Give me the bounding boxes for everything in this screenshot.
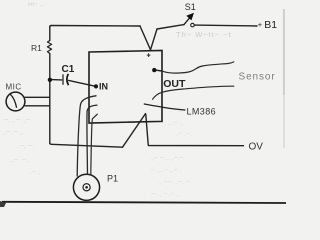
wire C1 input from junction bbox=[51, 79, 63, 81]
svg-text:Sensor: Sensor bbox=[239, 72, 276, 83]
wire 0V rail bbox=[148, 145, 243, 146]
wire diagonal to ground pin bbox=[123, 114, 146, 148]
wire MIC bottom terminal bbox=[25, 105, 50, 107]
svg-text:.,~ ~,.. ,~.~ .: .,~ ~,.. ,~.~ . bbox=[150, 155, 188, 162]
svg-text:., ~~. .~, ~: ., ~~. .~, ~ bbox=[158, 179, 190, 186]
svg-text:~. ,.~ .,~: ~. ,.~ .,~ bbox=[4, 117, 30, 124]
svg-text:~ .,..~ ,.~ ,: ~ .,..~ ,.~ , bbox=[150, 167, 182, 174]
wire left vertical (R1 branch upper) bbox=[49, 27, 51, 41]
svg-text:,.~ .~ ,: ,.~ .~ , bbox=[10, 157, 30, 164]
wire MIC top terminal bbox=[25, 96, 50, 98]
LM386 callout line bbox=[144, 104, 185, 110]
svg-text:C1: C1 bbox=[62, 64, 75, 75]
scan border bottom line bbox=[2, 202, 286, 203]
wire OUT pin stub bbox=[156, 69, 162, 72]
svg-text:S1: S1 bbox=[185, 2, 196, 12]
node OUT pin dot bbox=[152, 68, 156, 72]
svg-text:MIC: MIC bbox=[6, 83, 22, 92]
svg-text:~. ,..~ .,: ~. ,..~ ., bbox=[160, 120, 184, 127]
switch S1 arrowhead bbox=[186, 13, 194, 21]
svg-text:im~ ..,: im~ .., bbox=[28, 2, 45, 8]
capacitor C1 left plate bbox=[62, 74, 64, 85]
resistor R1 bbox=[47, 41, 51, 54]
wire sensor lower bbox=[153, 86, 234, 99]
wire from switch to +B1 bbox=[194, 24, 257, 27]
wire speaker lead C bbox=[91, 114, 98, 174]
svg-text:P1: P1 bbox=[107, 174, 118, 184]
svg-text:.~, ~.: .~, ~. bbox=[18, 143, 34, 150]
capacitor C1 right curved plate bbox=[67, 74, 69, 85]
svg-text:R1: R1 bbox=[31, 43, 42, 53]
svg-text:B1: B1 bbox=[264, 19, 277, 31]
wire sensor upper bbox=[162, 62, 234, 73]
node IN pin dot bbox=[94, 84, 98, 88]
switch S1 contact circle bbox=[191, 23, 195, 27]
wire speaker lead B bbox=[87, 105, 97, 174]
faint bleed-through text right column bbox=[150, 30, 232, 198]
microphone MIC symbol bbox=[6, 92, 25, 111]
svg-text:.~. , ~.~ ,.: .~. , ~.~ ,. bbox=[150, 191, 180, 198]
scan smudge bottom-left corner bbox=[0, 201, 6, 207]
wire to switch S1 bbox=[157, 25, 184, 29]
wire bottom-left rail bbox=[50, 143, 123, 147]
op-amp U1 LM386 box bbox=[89, 51, 162, 124]
svg-text:.~ ,: .~ , bbox=[30, 169, 40, 176]
switch S1 lever bbox=[184, 17, 190, 25]
wire left vertical (below R1 to bottom rail) bbox=[49, 54, 51, 144]
wire V-dip to + pin of U1 bbox=[140, 26, 157, 50]
wire top horizontal rail bbox=[50, 26, 140, 28]
wire ground pin down to 0V rail bbox=[146, 115, 148, 145]
earpiece P1 center dot bbox=[85, 186, 88, 189]
pin + mark bbox=[147, 53, 151, 57]
earpiece P1 symbol bbox=[73, 174, 99, 200]
svg-text:LM386: LM386 bbox=[187, 107, 217, 117]
svg-text:OV: OV bbox=[249, 142, 264, 153]
node junction dot at R1/C1 bbox=[48, 78, 52, 82]
svg-text:,~ .~ ,.: ,~ .~ ,. bbox=[4, 129, 24, 136]
svg-text:+: + bbox=[258, 20, 263, 29]
faint right-edge scan line bbox=[283, 9, 284, 95]
svg-text:,~ .~.: ,~ .~. bbox=[176, 131, 192, 138]
faint bleed-through text bottom-left bbox=[4, 117, 40, 176]
svg-text:IN: IN bbox=[99, 82, 108, 92]
wire C1 to IN pin bbox=[69, 80, 96, 86]
svg-text:Th~ W~tt~.~t: Th~ W~tt~.~t bbox=[176, 30, 232, 39]
svg-text:OUT: OUT bbox=[163, 78, 186, 90]
wire speaker lead A bbox=[77, 96, 96, 176]
